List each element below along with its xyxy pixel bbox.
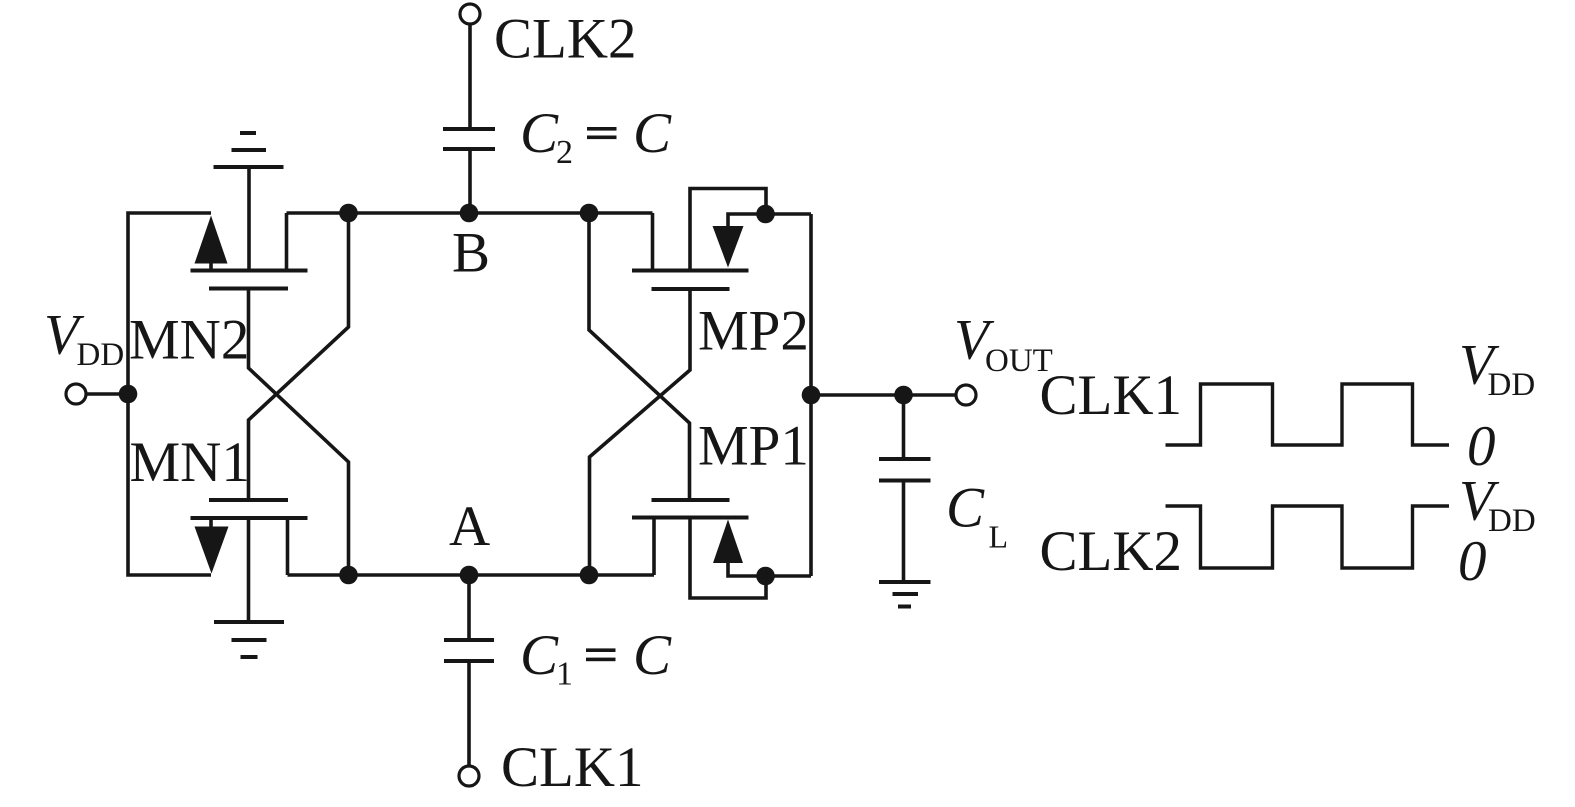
ground symbol below MN1 [214, 622, 284, 657]
waveform CLK1 [1166, 384, 1450, 445]
svg-text:1: 1 [556, 656, 573, 693]
svg-text:2: 2 [556, 134, 573, 171]
wire CLK2 terminal to C2 [468, 24, 472, 128]
wire output rail [809, 214, 813, 576]
ground symbol below CL [879, 582, 931, 607]
MN1 gate wire to node B [249, 213, 349, 498]
terminal VDD [66, 384, 86, 404]
transistor MN1 gate bar [209, 498, 288, 502]
transistor MP1 gate bar [652, 498, 730, 502]
svg-text:C: C [633, 102, 672, 165]
svg-text:A: A [449, 495, 490, 558]
MN2 gate wire to node A [249, 291, 349, 576]
MN1 bulk wire [247, 520, 251, 622]
MP1 gate wire to node B [589, 213, 690, 498]
svg-text:0: 0 [1458, 530, 1487, 593]
svg-text:C: C [520, 102, 559, 165]
MP1 source wire from node A [652, 520, 656, 576]
svg-text:CLK2: CLK2 [1040, 520, 1183, 583]
wire node B row [287, 211, 653, 215]
label VOUT [954, 309, 1053, 380]
junction dot B-right (MP1 gate tap) [580, 204, 599, 223]
svg-text:B: B [452, 222, 490, 285]
svg-text:DD: DD [1488, 367, 1536, 403]
label C2 = C [520, 102, 672, 171]
node VOUT junction dot [802, 386, 821, 405]
svg-text:C: C [633, 624, 672, 687]
svg-text:C: C [946, 477, 985, 540]
junction dot VDD [119, 385, 138, 404]
junction dot B-left (MN1 gate tap) [339, 204, 358, 223]
transistor MN1 channel bar [191, 516, 308, 520]
MP2 source wire from node B [651, 213, 655, 269]
MN2 bulk wire [247, 167, 251, 269]
MP1 bulk wire [690, 520, 766, 599]
wire C2 to node B [468, 151, 472, 213]
svg-text:C: C [520, 624, 559, 687]
svg-text:CLK1: CLK1 [501, 736, 644, 799]
transistor MN2 gate bar [209, 287, 288, 291]
waveform CLK2 [1166, 506, 1450, 568]
MN1 source arrow [195, 520, 229, 574]
terminal VOUT [956, 385, 976, 405]
svg-text:DD: DD [77, 337, 125, 373]
MP2 gate wire to node A [590, 291, 691, 575]
wire node A row [288, 573, 655, 577]
junction dot CL [894, 386, 913, 405]
MP2 drain arrow and lead [713, 214, 812, 268]
MP2 drain junction dot [756, 205, 775, 224]
svg-text:DD: DD [1488, 503, 1536, 539]
terminal CLK2 [460, 4, 480, 24]
wire VDD terminal to rail [86, 392, 129, 396]
terminal CLK1 [459, 766, 479, 786]
label CL [946, 477, 1008, 555]
node B junction dot [460, 204, 479, 223]
svg-text:CLK2: CLK2 [494, 8, 637, 71]
capacitor CL [879, 395, 931, 580]
svg-text:MN1: MN1 [130, 431, 250, 494]
MN2 drain wire to node B [285, 213, 289, 269]
svg-text:L: L [989, 519, 1009, 555]
label VDD (CLK1 high) [1459, 334, 1535, 404]
junction dot A-left (MN2 gate tap) [339, 566, 358, 585]
ground symbol above MN2 [214, 133, 284, 167]
svg-text:MN2: MN2 [129, 309, 249, 372]
label C1 = C [520, 624, 672, 693]
svg-text:MP2: MP2 [698, 300, 809, 363]
capacitor C1 [444, 575, 494, 767]
label VDD (CLK2 high) [1459, 470, 1536, 540]
transistor MN2 channel bar [191, 269, 308, 273]
junction dot A-right (MP2 gate tap) [580, 566, 599, 585]
transistor MP1 channel bar [632, 516, 749, 520]
MP2 bulk wire [690, 189, 766, 269]
svg-text:CLK1: CLK1 [1040, 364, 1183, 427]
MP1 drain arrow and lead [713, 520, 811, 577]
node A junction dot [460, 566, 479, 585]
wire VOUT [811, 393, 957, 397]
wire VDD rail [128, 213, 211, 575]
MP1 drain junction dot [756, 567, 775, 586]
MN1 drain wire to node A [286, 520, 290, 576]
label VDD (left) [44, 304, 124, 374]
transistor MP2 gate bar [652, 287, 730, 291]
MN2 source arrow [195, 216, 228, 270]
transistor MP2 channel bar [632, 269, 749, 273]
capacitor C2 [443, 129, 495, 149]
svg-text:MP1: MP1 [698, 415, 809, 478]
